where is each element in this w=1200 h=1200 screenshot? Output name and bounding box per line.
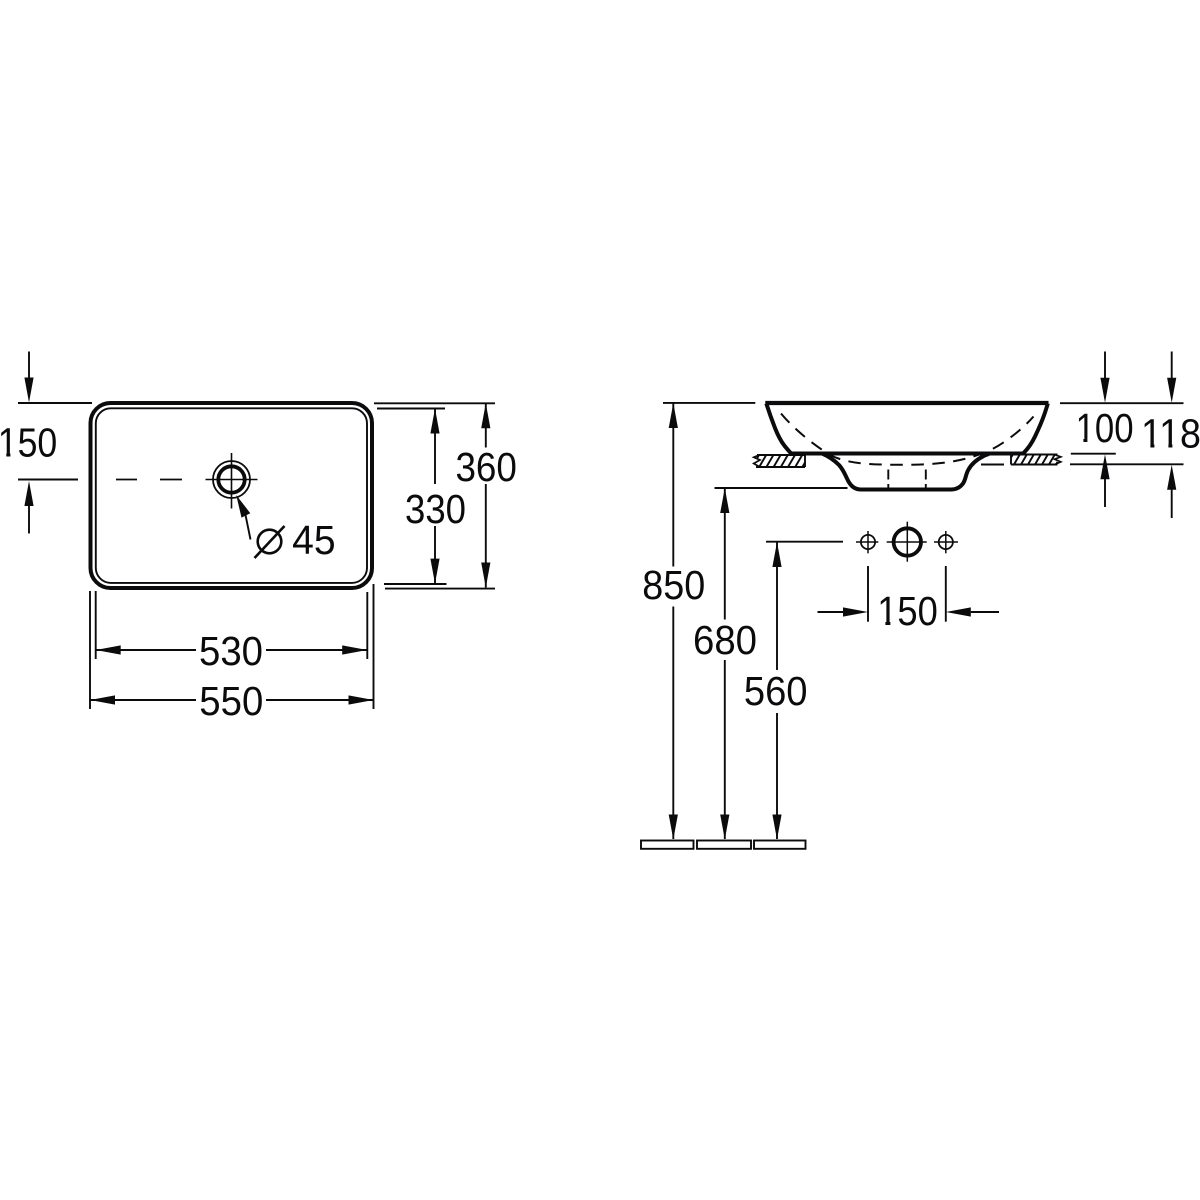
dimension 150 (side, hole spacing) <box>867 566 869 622</box>
svg-text:550: 550 <box>199 678 263 724</box>
drain centerline right dashed <box>925 470 927 489</box>
basin right outer wall <box>1024 404 1048 454</box>
tap hole center (side) <box>894 528 921 555</box>
svg-text:45: 45 <box>292 517 336 563</box>
dimension 550 (plan bottom outer) <box>89 591 91 709</box>
floor line tiles <box>641 841 694 849</box>
diameter symbol of label <box>258 530 282 554</box>
dimension 560 (tap hole height) <box>766 541 843 543</box>
countertop right section <box>1011 455 1013 458</box>
dimension 330 (plan right inner) <box>377 408 445 410</box>
svg-text:150: 150 <box>877 588 938 634</box>
basin flange bottom <box>789 452 1024 456</box>
tap hole left (side) <box>861 535 875 549</box>
dimension 150 (plan left) <box>18 402 92 404</box>
svg-text:560: 560 <box>744 668 808 714</box>
dashed centerline (plan) <box>116 479 182 481</box>
svg-text:680: 680 <box>693 617 757 663</box>
drain centerline left dashed <box>887 470 889 489</box>
basin inner surface dashed <box>781 414 1034 465</box>
tap hole inner circle <box>218 466 244 492</box>
tap hole right (side) <box>939 535 953 549</box>
dimension 100 (side right) <box>1060 402 1184 404</box>
svg-text:530: 530 <box>199 628 263 674</box>
svg-text:118: 118 <box>1141 411 1200 457</box>
basin rim top line <box>765 401 1048 405</box>
tap hole outer circle <box>213 461 250 498</box>
counter cut edge line <box>981 464 1004 466</box>
basin inner rim (plan) <box>96 408 367 583</box>
svg-text:850: 850 <box>642 562 705 608</box>
svg-text:150: 150 <box>0 419 57 465</box>
countertop left section <box>757 455 759 458</box>
basin left outer wall <box>766 404 790 453</box>
dimension 118 (side far right) <box>1070 463 1184 465</box>
basin under-counter bowl <box>822 454 989 490</box>
leader arrow to tap hole <box>236 495 250 518</box>
svg-text:100: 100 <box>1076 405 1134 451</box>
dimension 360 (plan right outer) <box>374 402 495 404</box>
dimension 530 (plan bottom inner) <box>95 591 97 659</box>
svg-text:360: 360 <box>455 444 517 490</box>
tap hole crosshair vertical <box>231 453 233 509</box>
basin outer rim (plan) <box>91 403 373 588</box>
dimension 680 (basin underside height) <box>715 487 848 489</box>
tap hole crosshair horizontal <box>206 479 258 481</box>
dimension 850 (rim height) <box>663 402 755 404</box>
svg-text:330: 330 <box>405 486 466 532</box>
